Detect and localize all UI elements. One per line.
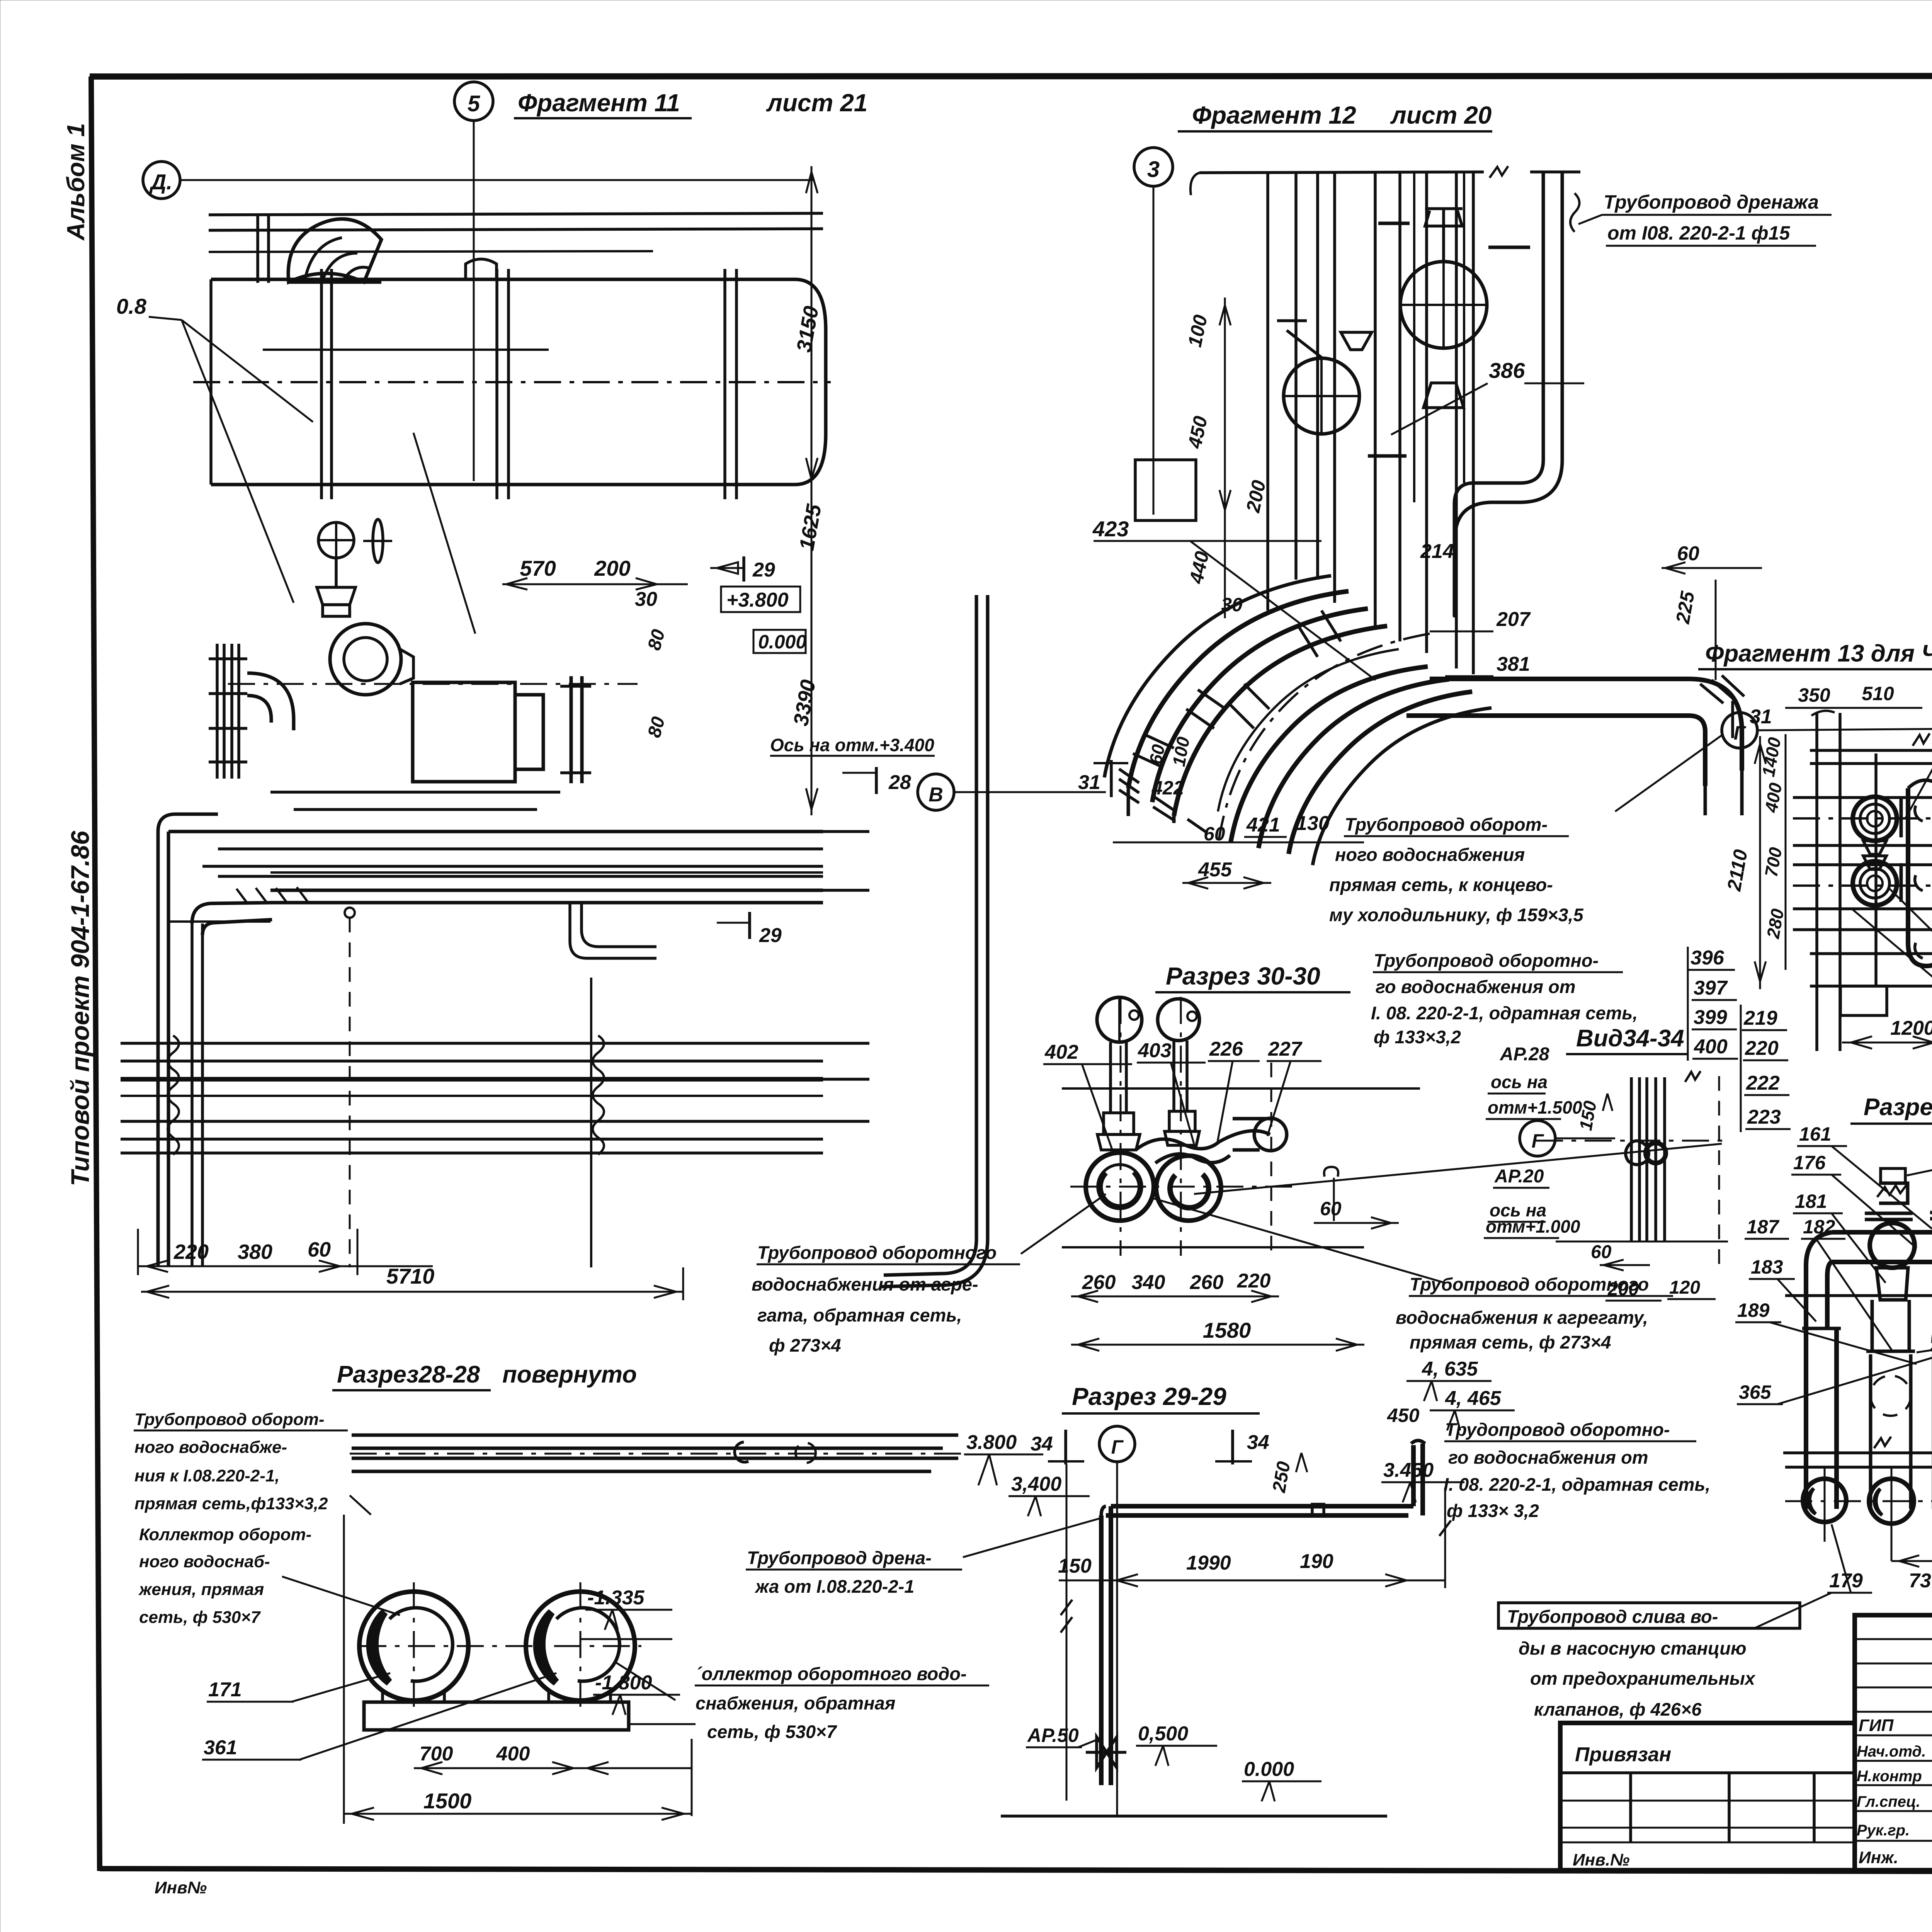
svg-text:лист 20: лист 20 — [1390, 101, 1492, 129]
horizontal bundle A line1 — [168, 830, 823, 833]
svg-text:182: 182 — [1803, 1216, 1835, 1238]
svg-text:60: 60 — [1591, 1242, 1612, 1262]
svg-text:Фрагмент 13 для ЧК-500АО: Фрагмент 13 для ЧК-500АО — [1705, 640, 1932, 667]
svg-text:396: 396 — [1690, 947, 1725, 969]
svg-text:клапанов, ф 426×6: клапанов, ф 426×6 — [1534, 1699, 1702, 1719]
svg-text:189: 189 — [1737, 1299, 1770, 1321]
valve 1 handwheel T — [1425, 207, 1463, 210]
dim extension lines — [137, 1229, 139, 1275]
svg-text:730: 730 — [1909, 1570, 1932, 1592]
horizontal pipe to right — [1430, 677, 1689, 681]
svg-text:386: 386 — [1489, 358, 1525, 383]
svg-text:60: 60 — [1204, 823, 1225, 845]
svg-text:400: 400 — [1761, 781, 1786, 815]
svg-text:3.450: 3.450 — [1383, 1459, 1434, 1481]
axis leader from circle 5 — [473, 121, 475, 481]
svg-text:В: В — [929, 784, 943, 806]
second handwheel — [373, 519, 383, 563]
riser centerline with circle — [345, 908, 355, 918]
circle Г — [1520, 1121, 1555, 1156]
stems — [1109, 1042, 1112, 1113]
valve 2 handwheel T — [1277, 319, 1307, 322]
svg-text:Коллектор оборот-: Коллектор оборот- — [139, 1525, 311, 1544]
svg-text:60: 60 — [308, 1238, 331, 1261]
wall line 1 — [209, 213, 823, 215]
bundle A line3 — [202, 865, 823, 868]
border frame bottom — [100, 1869, 1932, 1872]
break squiggle on bundle B — [168, 1036, 179, 1155]
long riser pair right — [975, 595, 978, 1239]
svg-text:1580: 1580 — [1203, 1318, 1251, 1342]
svg-text:700: 700 — [1761, 846, 1786, 879]
svg-text:Трубопровод оборот-: Трубопровод оборот- — [134, 1410, 325, 1429]
compressor cylinder right cap — [795, 279, 826, 485]
bundle B line6 — [121, 1151, 823, 1155]
elbow pipes to right — [1136, 1139, 1219, 1150]
bundle B line1 — [121, 1042, 823, 1045]
svg-text:5: 5 — [468, 91, 480, 116]
pump volute outer — [330, 624, 401, 695]
U pipe right — [1908, 788, 1932, 966]
svg-text:130: 130 — [1296, 812, 1330, 835]
svg-text:171: 171 — [208, 1679, 242, 1701]
svg-text:207: 207 — [1496, 608, 1531, 631]
fitting square — [1312, 1504, 1324, 1516]
svg-text:421: 421 — [1246, 814, 1280, 836]
leader to right text — [614, 1662, 675, 1700]
privyazan table — [1560, 1723, 1855, 1870]
svg-text:1625: 1625 — [795, 502, 826, 553]
boxed 0.000 — [753, 630, 806, 653]
manifold pipe with balls — [1832, 1230, 1932, 1235]
drain elbow down-left — [1454, 460, 1543, 616]
collector horizontals — [1810, 749, 1932, 752]
left ext line — [1066, 1464, 1068, 1801]
svg-text:5710: 5710 — [386, 1264, 435, 1288]
svg-text:80: 80 — [644, 627, 669, 653]
svg-text:Инв№: Инв№ — [155, 1878, 207, 1897]
left column pair — [256, 215, 259, 283]
right ext line — [1444, 1488, 1446, 1588]
bundle B line5 — [121, 1138, 823, 1141]
dark elbow fittings — [1626, 1141, 1649, 1165]
svg-text:Вид34-34: Вид34-34 — [1576, 1025, 1684, 1052]
valve bodies — [1104, 1113, 1134, 1134]
svg-text:Разрез28-28: Разрез28-28 — [337, 1361, 480, 1388]
left riser pair A — [156, 832, 160, 1266]
svg-text:223: 223 — [1747, 1106, 1781, 1128]
leader from circle 3 — [1153, 186, 1155, 515]
pump axis — [228, 683, 638, 685]
ground lines — [1785, 1294, 1932, 1297]
svg-text:3150: 3150 — [792, 304, 823, 354]
svg-text:34: 34 — [1031, 1433, 1053, 1455]
crescent inside 2 — [537, 1612, 556, 1682]
elbow drop verticals — [1704, 786, 1707, 815]
svg-text:29: 29 — [759, 924, 782, 947]
svg-text:200: 200 — [594, 556, 630, 580]
right drain pipe pair — [1542, 173, 1545, 460]
circle Г — [1099, 1426, 1135, 1462]
border frame left — [91, 77, 100, 1871]
valve symbol — [1097, 1737, 1117, 1768]
motor body — [413, 682, 515, 782]
pipe verticals — [1630, 1077, 1633, 1242]
valve body — [317, 587, 355, 605]
svg-text:100: 100 — [1184, 313, 1211, 349]
svg-text:4, 635: 4, 635 — [1422, 1358, 1478, 1380]
svg-text:Привязан: Привязан — [1575, 1743, 1671, 1766]
bundle B line2 — [121, 1060, 823, 1063]
svg-text:220: 220 — [1745, 1037, 1779, 1060]
svg-text:Д.: Д. — [149, 170, 172, 194]
svg-text:28: 28 — [888, 771, 911, 794]
bundle A line4 — [218, 875, 823, 878]
leader crossing to right — [1151, 1198, 1445, 1283]
dim vertical line — [1224, 298, 1226, 618]
svg-text:220: 220 — [1237, 1270, 1271, 1292]
svg-text:220: 220 — [173, 1240, 209, 1264]
valve stems left — [1881, 1168, 1905, 1183]
big pipe circle 1 — [359, 1592, 468, 1701]
svg-text:Альбом 1: Альбом 1 — [62, 123, 90, 241]
svg-text:-1.335: -1.335 — [587, 1587, 645, 1609]
hatched pipe pair — [270, 889, 823, 892]
signature table — [1855, 1615, 1932, 1870]
svg-text:1990: 1990 — [1186, 1552, 1231, 1574]
pump volute right — [1156, 1156, 1221, 1221]
leader — [963, 1519, 1099, 1557]
svg-text:4, 465: 4, 465 — [1445, 1387, 1502, 1410]
text Трубопровод оборотно-го (под 30-30) — [1371, 950, 1638, 1047]
svg-text:350: 350 — [1798, 684, 1830, 706]
centerlines through circles — [413, 1582, 415, 1712]
svg-text:1400: 1400 — [1758, 736, 1785, 778]
cylinder support 1 — [320, 269, 323, 499]
svg-text:Ось на отм.+3.400: Ось на отм.+3.400 — [770, 735, 934, 755]
svg-text:3390: 3390 — [789, 678, 820, 728]
svg-text:Рук.гр.: Рук.гр. — [1857, 1822, 1910, 1839]
svg-text:250: 250 — [1269, 1460, 1294, 1494]
svg-text:АР.20: АР.20 — [1494, 1166, 1544, 1187]
svg-text:3,400: 3,400 — [1011, 1473, 1061, 1495]
leaders from text blocks — [350, 1495, 371, 1515]
section B circle — [918, 774, 954, 810]
leader from text to pump — [1021, 1194, 1106, 1254]
svg-text:450: 450 — [1184, 414, 1211, 451]
long verticals — [1815, 713, 1818, 1051]
vertical line right of bundle — [590, 978, 592, 1267]
pump volute inner — [344, 638, 387, 681]
svg-text:ф 133×3,2: ф 133×3,2 — [1374, 1027, 1461, 1047]
bottom crescent circles — [1803, 1479, 1846, 1522]
boxed +3.800 — [721, 587, 800, 612]
svg-text:ния к I.08.220-2-1,: ния к I.08.220-2-1, — [134, 1466, 280, 1485]
svg-text:Г: Г — [1111, 1436, 1124, 1458]
bottom line — [1062, 1246, 1364, 1248]
axis dash line — [350, 1453, 966, 1455]
valve 2 body circle — [1284, 358, 1359, 434]
svg-text:3.800: 3.800 — [966, 1431, 1017, 1454]
svg-text:187: 187 — [1747, 1216, 1780, 1238]
text Трубопровод оборотного водоснабжения от (лев) — [1387, 1405, 1710, 1521]
svg-text:455: 455 — [1198, 859, 1232, 881]
svg-text:Разрез 29-29: Разрез 29-29 — [1072, 1383, 1226, 1410]
svg-text:ось на: ось на — [1491, 1072, 1548, 1092]
svg-text:0.8: 0.8 — [116, 294, 147, 318]
svg-text:226: 226 — [1209, 1038, 1243, 1060]
ground line — [1001, 1815, 1387, 1818]
elbow pipe to pump — [247, 673, 294, 730]
svg-text:Трубопровод оборотного: Трубопровод оборотного — [1410, 1274, 1649, 1294]
svg-text:161: 161 — [1799, 1123, 1831, 1145]
text Трубопровод слива воды (нижний центр) — [1498, 1593, 1832, 1719]
svg-text:Инж.: Инж. — [1859, 1848, 1898, 1867]
left vertical pipe — [1804, 1328, 1808, 1509]
circle Г left — [1722, 713, 1757, 748]
svg-text:402: 402 — [1044, 1041, 1078, 1063]
svg-text:-1.800: -1.800 — [595, 1672, 652, 1694]
elbow B — [192, 903, 273, 923]
cone between — [1863, 841, 1886, 854]
bundle B heavy line — [121, 1077, 823, 1082]
svg-text:34: 34 — [1247, 1431, 1269, 1454]
small circle fittings on pipe — [735, 1442, 748, 1462]
horizontal dash-dot axis — [1536, 1140, 1726, 1142]
bundle right extension — [823, 830, 869, 833]
svg-text:176: 176 — [1793, 1152, 1826, 1173]
svg-text:260: 260 — [1190, 1271, 1224, 1294]
svg-text:120: 120 — [1669, 1277, 1700, 1298]
svg-text:397: 397 — [1694, 977, 1728, 999]
break squiggle top — [1685, 1071, 1701, 1082]
break marks — [1913, 733, 1930, 746]
svg-text:340: 340 — [1132, 1271, 1165, 1294]
right riser — [1411, 1445, 1416, 1506]
axis circle Д — [143, 162, 180, 199]
pipe end circle — [1254, 1118, 1287, 1151]
cylinder support 2 — [723, 269, 726, 499]
svg-text:Н.контр: Н.контр — [1857, 1768, 1922, 1785]
svg-text:570: 570 — [520, 556, 556, 580]
svg-text:АР.28: АР.28 — [1500, 1044, 1549, 1065]
small funnel — [1341, 332, 1372, 350]
left big elbow — [1806, 1232, 1832, 1328]
center-left descending pipe — [1876, 1268, 1908, 1300]
svg-text:Типовой проект 904-1-67.86: Типовой проект 904-1-67.86 — [66, 830, 94, 1186]
svg-text:60: 60 — [1677, 543, 1699, 565]
right vertical dim line — [811, 166, 813, 815]
svg-text:1200: 1200 — [1890, 1017, 1932, 1039]
S-bend verticals to cut — [1127, 788, 1130, 816]
svg-text:жения, прямая: жения, прямая — [138, 1580, 264, 1599]
svg-text:прямая сеть,ф133×3,2: прямая сеть,ф133×3,2 — [134, 1494, 328, 1513]
svg-text:от предохранительных: от предохранительных — [1530, 1668, 1756, 1689]
svg-text:0.000: 0.000 — [1244, 1758, 1294, 1781]
flanged unit 2 — [1853, 861, 1897, 905]
pump volute left — [1086, 1153, 1154, 1221]
drain pipe horizontal — [1111, 1504, 1413, 1509]
svg-text:отм+1.500: отм+1.500 — [1488, 1097, 1582, 1117]
small hook right — [1324, 1167, 1338, 1177]
svg-text:Трубопровод оборот-: Трубопровод оборот- — [1345, 814, 1548, 835]
border frame top — [90, 76, 1932, 77]
collector pipe line4 — [352, 1470, 931, 1473]
svg-text:Фрагмент 12: Фрагмент 12 — [1192, 101, 1356, 129]
Фрагмент 11 lower pipe bundle — [121, 595, 988, 1300]
svg-text:399: 399 — [1694, 1006, 1727, 1029]
svg-text:прямая сеть, ф 273×4: прямая сеть, ф 273×4 — [1410, 1332, 1611, 1352]
svg-text:жа от I.08.220-2-1: жа от I.08.220-2-1 — [754, 1576, 914, 1597]
leader for text A — [1615, 734, 1723, 811]
svg-text:400: 400 — [1694, 1036, 1728, 1058]
svg-text:ГИП: ГИП — [1859, 1716, 1894, 1735]
axis line Д — [180, 179, 815, 181]
svg-text:АР.50: АР.50 — [1027, 1725, 1079, 1746]
svg-text:Трубопровод дренажа: Трубопровод дренажа — [1604, 191, 1819, 213]
svg-text:прямая сеть, к концево-: прямая сеть, к концево- — [1329, 874, 1553, 895]
valve stem — [335, 558, 338, 587]
svg-text:0.000: 0.000 — [758, 631, 806, 653]
elbow A to bundle — [158, 814, 218, 832]
ceiling line — [1199, 172, 1484, 173]
svg-text:Фрагмент 11: Фрагмент 11 — [518, 89, 680, 117]
svg-text:лист 21: лист 21 — [766, 89, 867, 117]
svg-text:+3.800: +3.800 — [726, 589, 789, 611]
cylinder axis dash-dot — [193, 381, 831, 383]
svg-text:31: 31 — [1078, 771, 1100, 794]
svg-text:80: 80 — [644, 714, 669, 740]
svg-text:гата, обратная сеть,: гата, обратная сеть, — [757, 1305, 962, 1325]
pipe verticals — [1266, 173, 1269, 611]
wall line 3 — [209, 251, 653, 252]
svg-text:I. 08. 220-2-1, одратная сеть: I. 08. 220-2-1, одратная сеть, — [1444, 1474, 1710, 1495]
leader into pump — [413, 433, 475, 634]
svg-text:214: 214 — [1420, 540, 1454, 563]
svg-text:2110: 2110 — [1723, 848, 1752, 893]
centerlines — [1785, 1500, 1932, 1502]
svg-text:Трубопровод оборотно-: Трубопровод оборотно- — [1374, 950, 1599, 971]
dim line under verticals — [1113, 842, 1364, 844]
svg-text:381: 381 — [1497, 653, 1530, 675]
svg-text:Разрез 32-32: Разрез 32-32 — [1864, 1094, 1932, 1121]
svg-text:I. 08. 220-2-1, одратная сеть: I. 08. 220-2-1, одратная сеть, — [1371, 1003, 1638, 1023]
elbow risers at right — [570, 903, 656, 958]
svg-text:1500: 1500 — [423, 1789, 472, 1813]
horizontal pipe right — [1219, 1131, 1270, 1142]
flanged unit 1 — [1853, 797, 1897, 841]
svg-text:ф 273×4: ф 273×4 — [769, 1335, 841, 1355]
title block outer — [1560, 1562, 1932, 1897]
saddle legs — [381, 1690, 384, 1702]
svg-text:ф 133× 3,2: ф 133× 3,2 — [1447, 1500, 1539, 1521]
svg-text:200: 200 — [1242, 478, 1270, 515]
flange stack — [216, 644, 219, 779]
svg-text:29: 29 — [752, 559, 775, 581]
svg-text:Гл.спец.: Гл.спец. — [1857, 1793, 1920, 1810]
svg-text:ного водоснабжения: ного водоснабжения — [1335, 844, 1525, 865]
svg-text:Трубопровод слива во-: Трубопровод слива во- — [1507, 1606, 1718, 1627]
callout circle 5 — [454, 82, 493, 121]
cut hatch bands — [1119, 769, 1139, 803]
riser elbow to 28-28 collector — [884, 1239, 976, 1275]
collector pipe line2 — [352, 1447, 943, 1450]
compressor cylinder top — [211, 278, 795, 281]
svg-text:60: 60 — [1320, 1198, 1342, 1219]
svg-text:365: 365 — [1739, 1381, 1772, 1403]
svg-text:0,500: 0,500 — [1138, 1723, 1188, 1745]
svg-text:190: 190 — [1300, 1550, 1333, 1573]
svg-text:700: 700 — [420, 1743, 453, 1765]
svg-text:260: 260 — [1082, 1271, 1116, 1294]
bundle B line4 — [121, 1120, 823, 1123]
svg-text:Трубопровод дрена-: Трубопровод дрена- — [747, 1548, 932, 1568]
compressor cylinder left end — [209, 279, 213, 485]
svg-text:ды в насосную станцию: ды в насосную станцию — [1519, 1638, 1747, 1658]
handwheel left — [1097, 997, 1142, 1042]
wall square left — [1135, 460, 1196, 520]
svg-text:400: 400 — [496, 1743, 530, 1765]
svg-text:ного водоснабже-: ного водоснабже- — [134, 1438, 287, 1457]
left riser drop — [1099, 1515, 1104, 1785]
svg-text:227: 227 — [1268, 1038, 1303, 1060]
big pipe circle 2 — [526, 1592, 635, 1701]
collector pipe line3 — [352, 1457, 958, 1460]
crescent inside 1 — [370, 1612, 389, 1682]
handwheel right — [1158, 999, 1199, 1041]
svg-text:Инв.№: Инв.№ — [1573, 1850, 1629, 1869]
centerlines — [1120, 997, 1122, 1256]
bundle A line2 — [218, 847, 823, 850]
svg-text:повернуто: повернуто — [502, 1361, 637, 1388]
svg-text:Трудопровод оборотно-: Трудопровод оборотно- — [1445, 1419, 1670, 1440]
base block — [364, 1702, 629, 1730]
S-bend hatch bands — [1229, 611, 1341, 728]
bottom dim line — [1556, 1241, 1728, 1243]
valve handwheel — [318, 522, 354, 558]
pump base — [270, 791, 560, 794]
motor end cap — [515, 695, 543, 769]
axis line — [1757, 727, 1932, 730]
svg-text:225: 225 — [1672, 589, 1699, 626]
svg-text:510: 510 — [1862, 683, 1894, 704]
bundle B extra lines — [121, 1095, 823, 1097]
svg-text:30: 30 — [635, 588, 657, 611]
svg-text:отм+1.000: отм+1.000 — [1486, 1216, 1580, 1236]
svg-text:422: 422 — [1151, 777, 1184, 799]
pulleys — [570, 676, 573, 783]
crescents in U pipe — [1915, 806, 1923, 821]
svg-text:водоснабжения к агрегату,: водоснабжения к агрегату, — [1396, 1307, 1648, 1328]
left riser pair B — [190, 923, 194, 1266]
svg-text:Г: Г — [1734, 722, 1747, 744]
callout circle 3 — [1134, 148, 1173, 186]
collector pipe line1 — [352, 1434, 958, 1437]
pump suction cone — [400, 649, 413, 684]
valve 1 bottom cone — [1423, 383, 1464, 408]
svg-text:сеть, ф 530×7: сеть, ф 530×7 — [139, 1608, 261, 1627]
flange bars — [1378, 222, 1410, 225]
bottom small box — [1840, 986, 1887, 1015]
svg-text:403: 403 — [1138, 1039, 1172, 1062]
svg-text:Трубопровод оборотного: Трубопровод оборотного — [757, 1242, 997, 1263]
svg-text:60: 60 — [1145, 743, 1168, 766]
cylinder interior line — [263, 349, 549, 351]
svg-text:3: 3 — [1147, 157, 1160, 182]
svg-text:Нач.отд.: Нач.отд. — [1857, 1743, 1926, 1760]
svg-text:´оллектор оборотного водо-: ´оллектор оборотного водо- — [696, 1663, 967, 1684]
svg-text:219: 219 — [1743, 1007, 1777, 1029]
